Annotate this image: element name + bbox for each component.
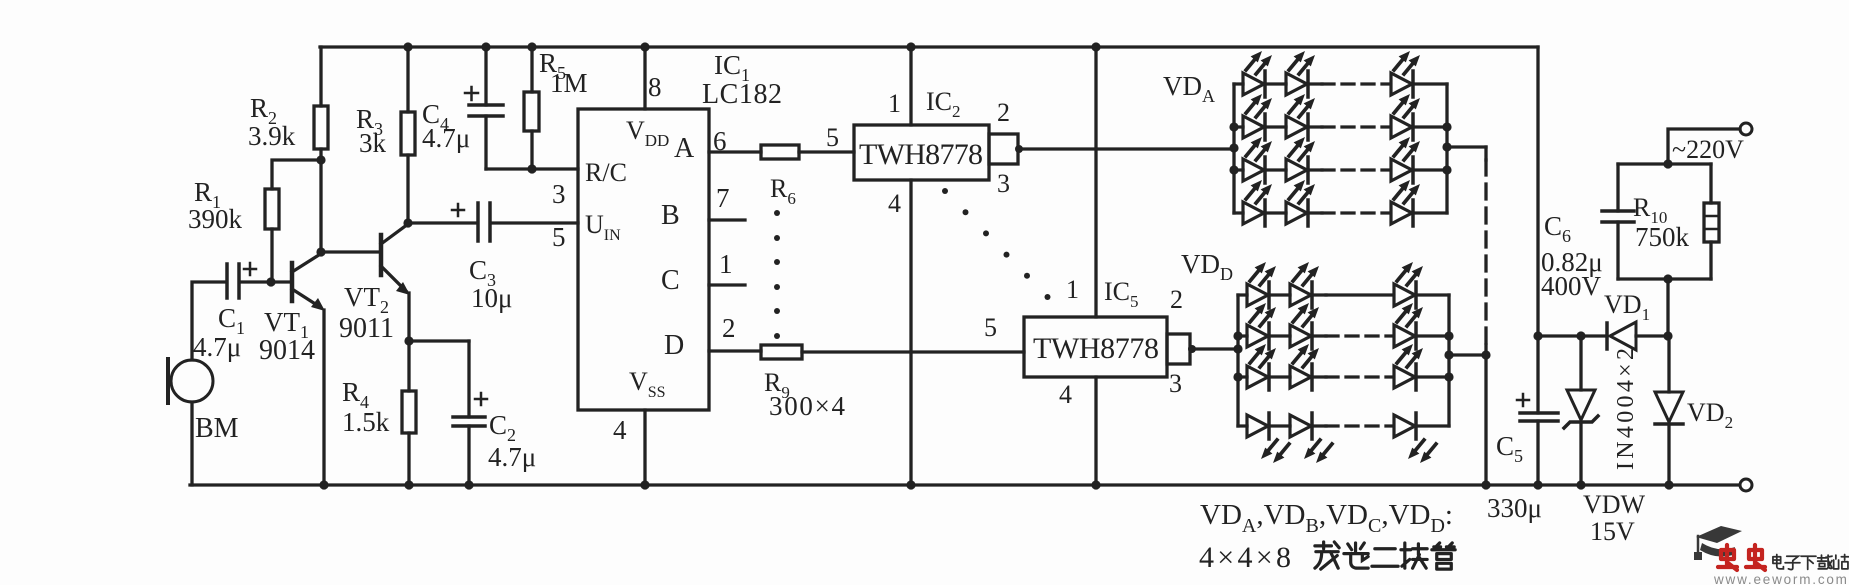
wire VDD row1: [1238, 293, 1449, 296]
wire VDD row2: [1238, 334, 1449, 337]
resistor R9 300x4: [761, 345, 802, 359]
wire: top +V rail: [320, 45, 1538, 48]
svg-text:750k: 750k: [1635, 222, 1690, 252]
svg-text:400V: 400V: [1541, 271, 1602, 301]
junction LED return / ground: [1481, 480, 1490, 489]
svg-text:2: 2: [1170, 285, 1183, 314]
svg-text:A: A: [674, 133, 695, 164]
LED VDA row3 d2: [1286, 137, 1315, 183]
LED VDA row4 d2: [1286, 180, 1315, 226]
LED VDD row2 d3: [1394, 303, 1423, 349]
watermark site name: [1773, 555, 1783, 569]
svg-text:4.7μ: 4.7μ: [488, 442, 536, 472]
junction R2/R1 node: [316, 155, 325, 164]
svg-text:1.5k: 1.5k: [342, 407, 390, 437]
LED VDD row4 d3: [1394, 413, 1436, 463]
junction IC5 output: [1188, 345, 1196, 353]
dashed wire VDD row2: [1326, 334, 1392, 337]
svg-text:4.7μ: 4.7μ: [422, 123, 470, 153]
junction R4/C2 node: [404, 336, 413, 345]
LED VDA row4 d3: [1391, 180, 1420, 226]
wire VDD output: [1449, 353, 1486, 356]
capacitor C6 0.82u 400V: [1616, 164, 1619, 211]
svg-text:9014: 9014: [259, 335, 315, 366]
LED VDD row1 d1: [1247, 262, 1276, 308]
wire VDA row1: [1234, 82, 1447, 85]
junction top rail / R3: [403, 42, 412, 51]
svg-text:300×4: 300×4: [769, 391, 846, 421]
VDD right bus: [1447, 295, 1450, 426]
LED VDD row2 d2: [1290, 303, 1319, 349]
diode VD1 (IN4004): [1605, 323, 1609, 349]
junction VD1/R10/VD2 node: [1663, 331, 1672, 340]
wire VDD row4: [1238, 424, 1449, 427]
resistor R5 1M: [530, 47, 533, 92]
LED VDA row3 d1: [1243, 137, 1272, 183]
svg-text:B: B: [661, 200, 680, 231]
svg-text:3: 3: [1169, 369, 1182, 398]
microphone BM: [166, 359, 170, 403]
wire collector node to C3: [408, 221, 476, 224]
resistor R2 3.9k: [319, 47, 322, 106]
svg-text:C: C: [661, 265, 680, 296]
svg-text:TWH8778: TWH8778: [859, 138, 983, 171]
junction VT1 base node: [266, 277, 275, 286]
svg-text:390k: 390k: [188, 204, 243, 234]
wire to 220V terminal: [1668, 129, 1740, 164]
svg-text:3: 3: [552, 179, 566, 209]
transistor VT1 9014: [290, 263, 295, 301]
wire IC2 pin 4 to ground: [909, 180, 912, 485]
junctions VDA left bus: [1229, 122, 1238, 131]
wire VDA row2: [1234, 125, 1447, 128]
wire R4 node to C2: [409, 339, 469, 342]
wire +15V node rail: [1538, 334, 1668, 337]
junction top rail / C4: [481, 42, 490, 51]
junction C5 ground: [1533, 480, 1542, 489]
junction C2/ground: [464, 480, 473, 489]
wire VDA output: [1447, 145, 1486, 148]
diode VD2 (IN4004): [1667, 336, 1670, 392]
svg-text:VDW: VDW: [1583, 490, 1646, 519]
transistor VT2 9011: [379, 235, 384, 275]
svg-text:4×4×8: 4×4×8: [1199, 541, 1291, 574]
svg-text:1M: 1M: [550, 68, 588, 98]
svg-text:D: D: [664, 330, 684, 361]
dashed wire VDA row4: [1322, 211, 1389, 214]
svg-text:7: 7: [716, 183, 730, 213]
svg-text:4: 4: [888, 189, 901, 218]
wire C3 to UIN pin: [492, 221, 578, 224]
svg-text:3.9k: 3.9k: [248, 121, 296, 151]
wire 220V dropper branch: [1666, 279, 1669, 336]
wire R10/C6 bottom: [1618, 277, 1711, 280]
wire VDA row3: [1234, 168, 1447, 171]
svg-text:TWH8778: TWH8778: [1033, 332, 1159, 365]
LED VDD row4 d1: [1247, 413, 1289, 463]
LED VDD row3 d3: [1394, 344, 1423, 390]
dashed wire VDA row3: [1322, 168, 1389, 171]
dotted line: IC3 IC4 omitted: [942, 188, 948, 194]
junctions VDA right bus: [1442, 122, 1451, 131]
wire VT1 collector to VT2 base: [321, 160, 381, 252]
IC U5: IC5 TWH8778: [1024, 317, 1167, 377]
svg-text:4: 4: [613, 415, 627, 445]
LED VDD row3 d2: [1290, 344, 1319, 390]
VDA right bus: [1445, 84, 1448, 213]
wire VT2 emitter to R4 node: [407, 293, 410, 341]
LED VDA row3 d3: [1391, 137, 1420, 183]
dashed wire VDD row4: [1326, 424, 1392, 427]
resistor R10 750k: [1709, 164, 1712, 203]
svg-text:3: 3: [997, 169, 1010, 198]
wire C4/R5 to R/C pin: [486, 167, 578, 170]
VDA left bus: [1232, 84, 1235, 213]
wire R2 node to R1: [272, 160, 321, 189]
junction IC2 output: [1015, 145, 1023, 153]
capacitor C3 10u: [476, 203, 480, 241]
wire mic to C1: [192, 282, 225, 360]
IC U1: IC1 LC182 body: [578, 109, 709, 410]
junction VT1 collector: [316, 247, 325, 256]
junction VT1 emitter/ground: [319, 480, 328, 489]
wire R6 to IC2 pin 5: [799, 150, 854, 153]
junction R10/C6 top: [1663, 159, 1672, 168]
svg-text:~220V: ~220V: [1672, 135, 1744, 164]
resistor R1 390k: [265, 189, 279, 229]
junction R4/ground: [404, 480, 413, 489]
svg-text:BM: BM: [195, 413, 239, 444]
capacitor C2 4.7u: [467, 341, 470, 417]
svg-text:5: 5: [826, 123, 839, 152]
dashed wire VDD row3: [1326, 375, 1392, 378]
LED VDD row1 d2: [1290, 262, 1319, 308]
wire IC5 pin 4 to ground: [1094, 377, 1097, 485]
wire IC5 pin 1 to top rail: [1094, 47, 1097, 317]
terminal: AC output bottom right: [1740, 479, 1752, 491]
svg-text:4: 4: [1059, 380, 1072, 409]
resistor R3 3k: [406, 47, 409, 112]
dashed wire VDA row1: [1322, 82, 1389, 85]
junction R5 bottom: [527, 164, 536, 173]
IC U2: IC2 TWH8778: [854, 125, 989, 180]
wire VDD row3: [1238, 375, 1449, 378]
LED VDD row1 d3: [1394, 262, 1423, 308]
wire VT1 emitter to ground: [322, 310, 325, 485]
LED VDA row1 d2: [1286, 51, 1315, 97]
LED VDD row2 d1: [1247, 303, 1276, 349]
LED VDA row2 d1: [1243, 94, 1272, 140]
junctions VDD left bus: [1233, 331, 1242, 340]
zener diode VDW 15V: [1579, 336, 1582, 390]
wire C1 to VT1 base: [241, 280, 292, 283]
svg-text:5: 5: [984, 313, 997, 342]
wire: ground bottom rail: [190, 483, 1740, 486]
svg-text:8: 8: [648, 72, 662, 102]
wire IC5 output to VDD bus: [1190, 347, 1238, 350]
svg-text:LC182: LC182: [702, 79, 782, 110]
svg-text:15V: 15V: [1590, 517, 1635, 546]
capacitor C4 4.7u: [484, 47, 487, 105]
ellipsis: omitted resistors R7 R8: [774, 210, 780, 216]
svg-text:330μ: 330μ: [1487, 493, 1542, 523]
svg-text:R/C: R/C: [585, 158, 627, 187]
wire R10/C6 top: [1618, 162, 1711, 165]
IC1 pin 8 VDD: [643, 47, 646, 109]
wire LED return line (dash-dot): [1484, 147, 1487, 160]
LED VDA row2 d3: [1391, 94, 1420, 140]
wire R9 to IC5 pin 5: [802, 350, 1024, 353]
watermark logo graduation cap: [1696, 526, 1742, 543]
svg-text:4.7μ: 4.7μ: [193, 332, 241, 362]
junction top rail / R5: [527, 42, 536, 51]
wire IC2 pin 1 to top rail: [909, 47, 912, 125]
svg-text:2: 2: [997, 98, 1010, 127]
wire VDA row4: [1234, 211, 1447, 214]
LED VDD row4 d2: [1290, 413, 1332, 463]
resistor R4 1.5k: [407, 341, 410, 391]
junction VT2 collector node: [403, 218, 412, 227]
capacitor C1 4.7u: [225, 264, 229, 298]
junction LED return / VDD output: [1481, 350, 1490, 359]
LED VDA row2 d2: [1286, 94, 1315, 140]
svg-text:9011: 9011: [339, 313, 394, 344]
svg-text:3k: 3k: [359, 128, 387, 158]
LED VDA row1 d1: [1243, 51, 1272, 97]
svg-text:1: 1: [888, 89, 901, 118]
LED VDD row3 d1: [1247, 344, 1276, 390]
svg-text:10μ: 10μ: [471, 283, 512, 313]
LED VDA row1 d3: [1391, 51, 1420, 97]
wire mic to ground: [190, 402, 193, 485]
svg-text:1: 1: [1066, 275, 1079, 304]
wire IC2 output to VDA bus: [1018, 147, 1234, 150]
resistor R6: [761, 145, 799, 159]
svg-text:5: 5: [552, 222, 566, 252]
watermark chongchong red: [1718, 545, 1737, 570]
svg-text:2: 2: [722, 313, 736, 343]
wire: right +V rail down through C5: [1536, 47, 1539, 485]
VDD left bus: [1236, 295, 1239, 426]
terminal: ~220V top right: [1740, 123, 1752, 135]
LED VDA row4 d1: [1243, 180, 1272, 226]
capacitor C5 330u: [1520, 411, 1558, 415]
svg-text:1: 1: [719, 249, 733, 279]
dashed wire VDA row2: [1322, 125, 1389, 128]
junction +V rail / 15V node: [1533, 331, 1542, 340]
junctions VDD right bus: [1444, 331, 1453, 340]
wire VDD row1 mid: [1326, 293, 1392, 296]
svg-text:www.eeworm.com: www.eeworm.com: [1713, 572, 1849, 585]
